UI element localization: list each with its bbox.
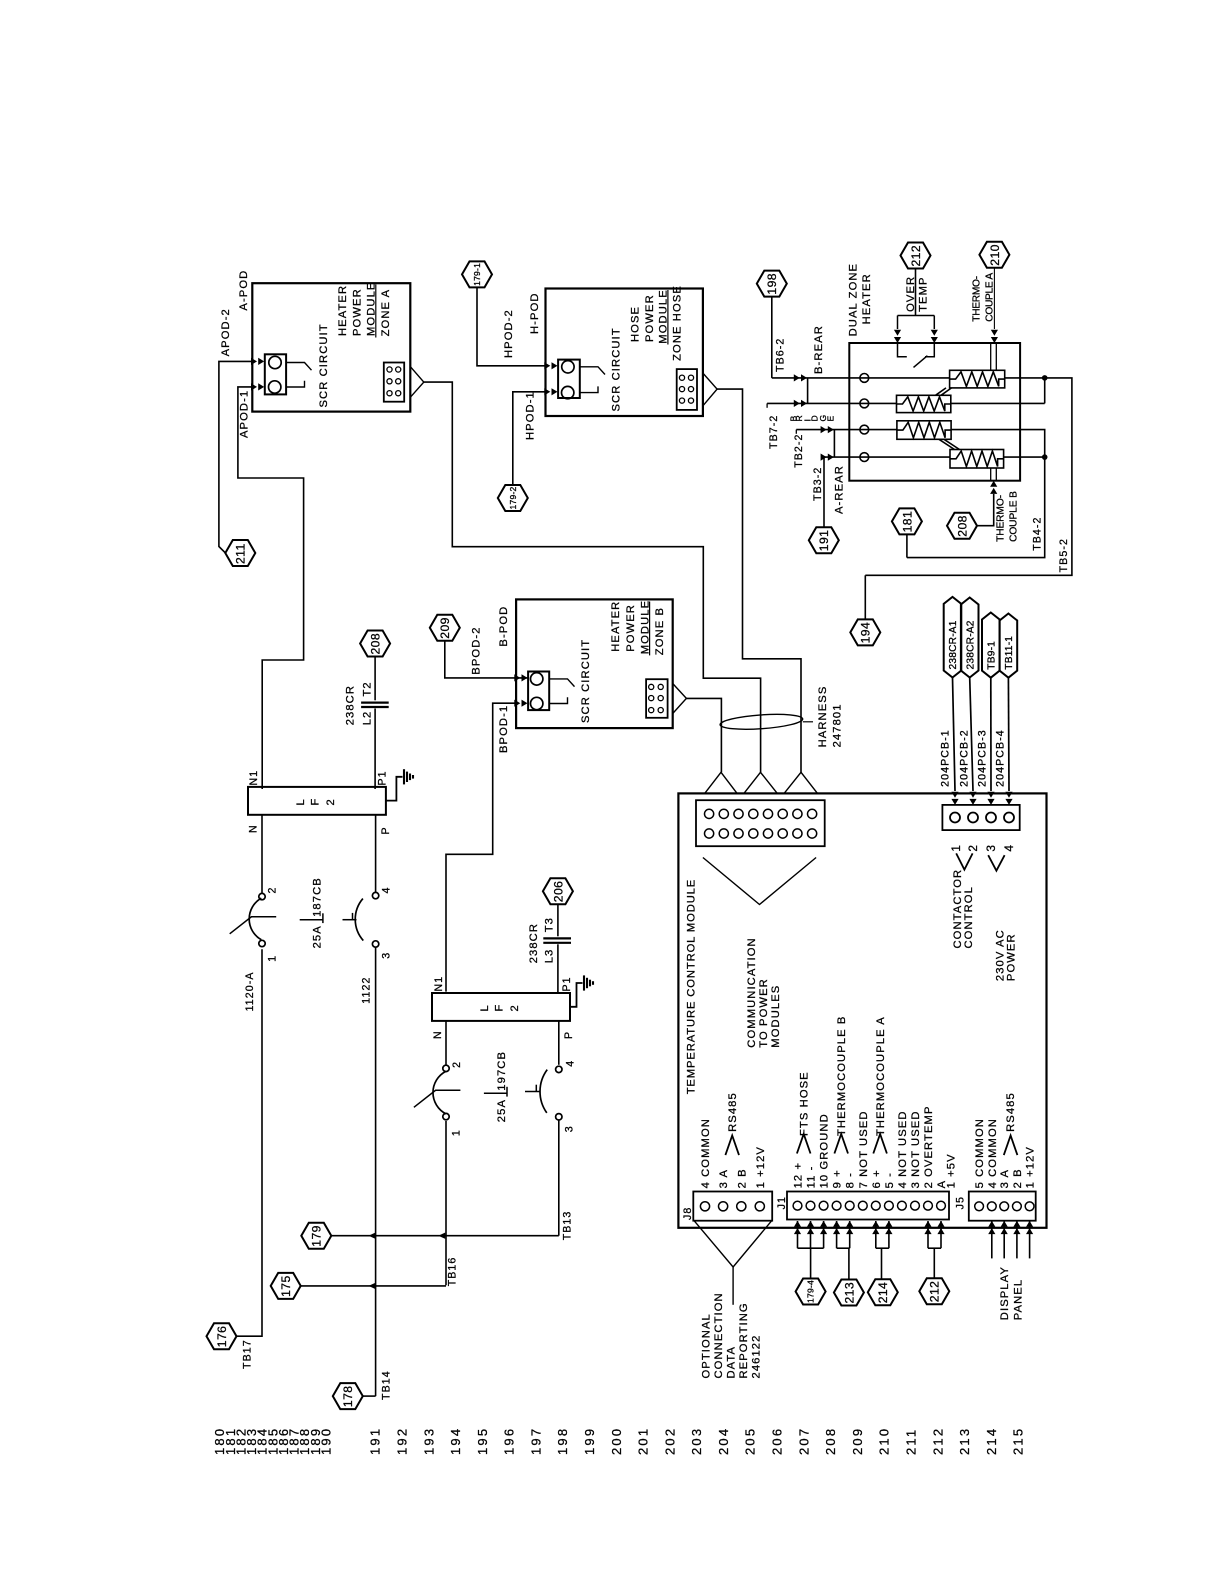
heater row wires (772, 377, 950, 379)
svg-text:1122: 1122 (360, 977, 372, 1004)
svg-text:175: 175 (279, 1275, 293, 1297)
wire H-POD to harness chain (717, 389, 801, 772)
svg-text:P1: P1 (376, 770, 388, 785)
svg-text:MODULES: MODULES (770, 985, 782, 1048)
svg-text:12 +: 12 + (793, 1162, 805, 1189)
svg-text:SCR CIRCUIT: SCR CIRCUIT (611, 327, 623, 411)
svg-text:N1: N1 (248, 770, 260, 786)
J8 fanout V (694, 1221, 771, 1267)
link R3-R4 (939, 439, 960, 449)
svg-text:179: 179 (310, 1225, 324, 1247)
svg-text:ZONE HOSE: ZONE HOSE (672, 285, 684, 361)
svg-text:204: 204 (716, 1427, 731, 1455)
temperature control module box (678, 793, 1046, 1227)
link R1-R2 (936, 388, 952, 395)
connector J5 (969, 1192, 1036, 1221)
svg-text:4 NOT USED: 4 NOT USED (897, 1110, 909, 1188)
svg-text:178: 178 (341, 1386, 355, 1408)
svg-text:204PCB-1: 204PCB-1 (940, 729, 952, 787)
heater element R1 (950, 370, 1005, 388)
line filter LF2 #2 (432, 993, 570, 1021)
svg-text:A-POD: A-POD (238, 270, 250, 311)
svg-text:238CR-A1: 238CR-A1 (948, 620, 959, 669)
svg-text:TB17: TB17 (241, 1339, 253, 1369)
svg-text:4 COMMON: 4 COMMON (987, 1118, 999, 1188)
node 178 TB14 (333, 1383, 363, 1409)
harness entry tents (705, 772, 737, 793)
svg-text:DUAL ZONE: DUAL ZONE (847, 263, 859, 337)
svg-text:TB6-2: TB6-2 (774, 338, 786, 372)
hose power module H-POD (zone hose) (546, 289, 703, 417)
node 212 overtemp (901, 243, 931, 269)
svg-text:196: 196 (502, 1427, 517, 1455)
svg-text:1 +12V: 1 +12V (1025, 1146, 1037, 1188)
node 212 display (919, 1278, 949, 1304)
node 194 (850, 619, 880, 645)
J5 wires to display panel (988, 1221, 995, 1234)
node 179-1 (462, 261, 492, 287)
node 179-2 (498, 485, 528, 511)
svg-text:TB14: TB14 (381, 1370, 393, 1400)
svg-text:L3: L3 (543, 949, 555, 964)
svg-text:4 COMMON: 4 COMMON (700, 1118, 712, 1188)
svg-text:OVER: OVER (905, 276, 917, 312)
svg-text:211: 211 (234, 543, 248, 564)
svg-text:BPOD-2: BPOD-2 (470, 626, 482, 674)
svg-text:COMMUNICATION: COMMUNICATION (746, 937, 758, 1047)
svg-text:ZONE B: ZONE B (654, 607, 666, 655)
svg-text:190: 190 (319, 1427, 334, 1455)
SCR circuit H-POD (558, 360, 580, 398)
node 208 thermocouple B (947, 513, 977, 539)
svg-text:BPOD-1: BPOD-1 (498, 705, 510, 753)
svg-text:191: 191 (817, 530, 831, 552)
svg-text:3: 3 (984, 844, 998, 852)
svg-text:197CB: 197CB (496, 1051, 508, 1091)
thermocouple A leads (991, 343, 997, 370)
svg-text:APOD-2: APOD-2 (220, 308, 232, 356)
svg-text:3 A: 3 A (999, 1169, 1011, 1188)
svg-text:213: 213 (957, 1427, 972, 1455)
wire CB2 pin1 down (445, 1121, 447, 1285)
flags 238CR-A1 etc (944, 597, 962, 678)
node 176 TB17 (207, 1323, 237, 1349)
svg-text:HPOD-2: HPOD-2 (503, 309, 515, 358)
svg-text:1: 1 (266, 955, 278, 962)
svg-text:4: 4 (380, 887, 392, 894)
svg-text:212: 212 (930, 1427, 945, 1455)
node 198 (757, 271, 787, 297)
svg-text:204PCB-4: 204PCB-4 (995, 729, 1007, 787)
svg-text:POWER: POWER (1006, 933, 1018, 981)
svg-text:E: E (825, 415, 835, 422)
svg-text:THERMOCOUPLE B: THERMOCOUPLE B (836, 1016, 848, 1136)
node 191 (809, 527, 839, 553)
svg-text:6 +: 6 + (871, 1169, 883, 1188)
svg-text:THERMO-: THERMO- (971, 276, 982, 321)
svg-text:191: 191 (368, 1427, 383, 1455)
svg-text:179-1: 179-1 (472, 263, 482, 286)
SCR circuit B-POD (528, 672, 549, 711)
svg-text:3 NOT USED: 3 NOT USED (910, 1110, 922, 1188)
svg-text:L2: L2 (361, 711, 373, 726)
svg-text:208: 208 (955, 515, 969, 537)
heater element R3 (897, 421, 951, 440)
node 211 (225, 540, 255, 566)
svg-text:HEATER: HEATER (861, 273, 873, 324)
svg-text:5 -: 5 - (884, 1172, 896, 1188)
svg-text:T2: T2 (361, 681, 373, 696)
svg-text:1: 1 (450, 1129, 462, 1136)
svg-text:213: 213 (842, 1282, 856, 1304)
svg-text:187CB: 187CB (312, 877, 324, 917)
heater element R2 (897, 395, 951, 412)
svg-text:THERMOCOUPLE A: THERMOCOUPLE A (875, 1016, 887, 1136)
harness 247801 cable ellipse (720, 712, 804, 732)
svg-text:4: 4 (565, 1060, 577, 1067)
svg-text:DATA: DATA (725, 1346, 737, 1379)
svg-text:H-POD: H-POD (529, 292, 541, 334)
heater power module A-POD (zone A) (252, 283, 410, 411)
svg-text:9 +: 9 + (832, 1169, 844, 1188)
SCR circuit A-POD (265, 354, 286, 394)
svg-text:A-REAR: A-REAR (834, 465, 846, 514)
svg-text:238CR: 238CR (528, 923, 540, 963)
svg-text:DISPLAY: DISPLAY (999, 1266, 1011, 1320)
wire CB1 pin3 down (375, 948, 377, 1397)
svg-text:TB7-2: TB7-2 (768, 415, 780, 449)
svg-text:TB5-2: TB5-2 (1058, 538, 1070, 572)
svg-text:209: 209 (438, 617, 452, 639)
wire 179 bus (331, 1235, 559, 1237)
svg-text:N: N (432, 1030, 444, 1039)
node 175 (271, 1273, 301, 1299)
dual zone heater box (849, 343, 1020, 481)
node 214 (868, 1279, 898, 1305)
node 206 (543, 878, 573, 904)
wire CB1 pin1 to TB17 (236, 949, 262, 1336)
svg-text:5 COMMON: 5 COMMON (974, 1118, 986, 1188)
svg-text:CONNECTION: CONNECTION (713, 1292, 725, 1378)
svg-text:4: 4 (1002, 844, 1016, 852)
wire B-POD to harness (686, 698, 721, 772)
svg-text:TB13: TB13 (561, 1211, 573, 1241)
svg-text:TO POWER: TO POWER (758, 978, 770, 1048)
svg-text:COUPLE B: COUPLE B (1009, 491, 1020, 542)
svg-text:P: P (380, 826, 392, 834)
wire 175 bus TB16 (301, 1285, 446, 1287)
svg-text:212: 212 (928, 1281, 942, 1303)
communication connector 2x8 (696, 800, 825, 846)
svg-text:194: 194 (448, 1427, 463, 1455)
svg-text:210: 210 (877, 1427, 892, 1455)
svg-text:200: 200 (609, 1427, 624, 1455)
svg-text:2 B: 2 B (1012, 1168, 1024, 1188)
svg-text:J8: J8 (682, 1207, 694, 1220)
svg-text:APOD-1: APOD-1 (239, 390, 251, 438)
svg-text:J5: J5 (954, 1196, 966, 1209)
svg-text:203: 203 (689, 1427, 704, 1455)
connector B-POD output (646, 679, 668, 718)
node 208 contact 238CR (360, 631, 390, 657)
svg-text:238CR: 238CR (344, 685, 356, 725)
svg-text:L: L (295, 798, 307, 805)
svg-text:T3: T3 (543, 917, 555, 932)
svg-text:193: 193 (421, 1427, 436, 1455)
svg-text:L: L (479, 1004, 491, 1011)
svg-text:198: 198 (555, 1427, 570, 1455)
svg-text:POWER: POWER (351, 288, 363, 336)
ground LF2 #1 (386, 777, 403, 801)
relay contact 238CR L2/T2 (361, 701, 389, 703)
node 209 (430, 615, 460, 641)
svg-text:HARNESS: HARNESS (817, 686, 829, 748)
svg-text:SCR CIRCUIT: SCR CIRCUIT (580, 639, 592, 723)
svg-text:N: N (247, 824, 259, 833)
svg-text:3: 3 (563, 1125, 575, 1132)
svg-text:8 -: 8 - (845, 1172, 857, 1188)
circuit breaker 187CB (261, 815, 263, 894)
ground LF2 #2 (570, 983, 583, 1007)
relay contact 238CR L3/T3 (543, 937, 571, 939)
node 179-4 (796, 1279, 826, 1305)
svg-text:TB3-2: TB3-2 (812, 467, 824, 501)
svg-text:OPTIONAL: OPTIONAL (700, 1313, 712, 1378)
svg-text:204PCB-2: 204PCB-2 (959, 729, 971, 787)
svg-text:TB4-2: TB4-2 (1032, 516, 1044, 550)
svg-text:P1: P1 (561, 976, 573, 991)
circuit breaker 197CB (445, 1021, 447, 1066)
svg-text:POWER: POWER (625, 604, 637, 652)
svg-text:RS485: RS485 (727, 1092, 739, 1132)
svg-text:214: 214 (984, 1427, 999, 1455)
svg-text:192: 192 (395, 1427, 410, 1455)
heater element R4 (950, 450, 1004, 469)
svg-text:246122: 246122 (750, 1335, 762, 1379)
svg-text:TEMPERATURE CONTROL MODULE: TEMPERATURE CONTROL MODULE (686, 879, 698, 1094)
svg-text:1 +12V: 1 +12V (755, 1146, 767, 1188)
svg-text:TEMP: TEMP (918, 276, 930, 311)
svg-text:206: 206 (770, 1427, 785, 1455)
svg-text:199: 199 (582, 1427, 597, 1455)
svg-text:215: 215 (1011, 1427, 1026, 1455)
svg-text:2 OVERTEMP: 2 OVERTEMP (923, 1105, 935, 1188)
wire A-POD to harness chain (424, 382, 761, 772)
svg-text:REPORTING: REPORTING (738, 1302, 750, 1378)
svg-text:210: 210 (988, 244, 1002, 266)
svg-text:ZONE A: ZONE A (380, 289, 392, 337)
svg-text:N1: N1 (433, 976, 445, 992)
svg-text:CONTROL: CONTROL (963, 886, 975, 948)
svg-text:247801: 247801 (831, 703, 843, 747)
svg-text:J1: J1 (776, 1196, 788, 1209)
connector H-POD output (677, 369, 697, 410)
svg-text:TB16: TB16 (446, 1257, 458, 1287)
svg-text:208: 208 (823, 1427, 838, 1455)
svg-text:204PCB-3: 204PCB-3 (977, 729, 989, 787)
svg-text:208: 208 (369, 633, 383, 655)
connector J8 (693, 1192, 772, 1221)
svg-text:TB2-2: TB2-2 (793, 433, 805, 467)
svg-text:P: P (563, 1031, 575, 1039)
svg-text:SCR CIRCUIT: SCR CIRCUIT (318, 323, 330, 407)
svg-text:2: 2 (325, 798, 337, 805)
svg-text:1: 1 (949, 844, 963, 852)
svg-text:209: 209 (850, 1427, 865, 1455)
svg-text:10 GROUND: 10 GROUND (819, 1113, 831, 1188)
heater power module B-POD (zone B) (516, 599, 673, 728)
svg-text:3: 3 (380, 952, 392, 959)
svg-text:2: 2 (451, 1061, 463, 1068)
svg-text:25A: 25A (312, 925, 324, 948)
svg-text:1 +5V: 1 +5V (945, 1153, 957, 1188)
svg-text:PANEL: PANEL (1012, 1279, 1024, 1320)
svg-text:205: 205 (743, 1427, 758, 1455)
svg-text:HEATER: HEATER (337, 285, 349, 336)
svg-text:TB9-1: TB9-1 (987, 641, 998, 670)
svg-text:206: 206 (551, 881, 565, 903)
svg-text:212: 212 (909, 245, 923, 267)
svg-text:238CR-A2: 238CR-A2 (965, 620, 976, 669)
svg-text:197: 197 (528, 1427, 543, 1455)
J1 wires to nodes (794, 1221, 801, 1234)
connector J1 (787, 1192, 949, 1220)
node 210 thermocouple A (979, 242, 1009, 268)
svg-text:TB11-1: TB11-1 (1004, 636, 1015, 670)
svg-text:B-REAR: B-REAR (813, 325, 825, 374)
svg-text:201: 201 (636, 1427, 651, 1455)
svg-text:F: F (494, 1004, 506, 1012)
svg-text:2: 2 (509, 1004, 521, 1011)
svg-text:HOSE: HOSE (630, 306, 642, 342)
node 213 (834, 1280, 864, 1306)
svg-text:7 NOT USED: 7 NOT USED (858, 1110, 870, 1188)
heater terminals (860, 374, 869, 383)
svg-text:HEATER: HEATER (610, 601, 622, 652)
svg-text:179-4: 179-4 (806, 1280, 816, 1303)
svg-text:POWER: POWER (644, 294, 656, 342)
wires flags to connector (953, 678, 956, 792)
svg-text:179-2: 179-2 (508, 486, 518, 509)
svg-text:RS485: RS485 (1005, 1092, 1017, 1132)
svg-text:181: 181 (900, 511, 914, 533)
fanout V (703, 858, 816, 905)
svg-text:211: 211 (904, 1428, 919, 1455)
node 179 (301, 1223, 331, 1249)
contactor/power connector 204PCB (942, 805, 1019, 830)
svg-text:198: 198 (765, 273, 779, 295)
svg-text:25A: 25A (496, 1099, 508, 1122)
thermocouple B leads (991, 468, 997, 481)
svg-text:F: F (310, 798, 322, 806)
wire CB2 pin3 down TB13 (558, 1120, 560, 1236)
svg-text:214: 214 (876, 1282, 890, 1304)
svg-text:1120-A: 1120-A (244, 971, 256, 1011)
svg-text:202: 202 (662, 1427, 677, 1455)
svg-text:11 -: 11 - (806, 1166, 818, 1189)
svg-text:176: 176 (215, 1326, 229, 1348)
line filter LF2 #1 (248, 787, 386, 815)
svg-text:B-POD: B-POD (498, 606, 510, 647)
heater right side ties (865, 378, 1072, 575)
svg-text:2: 2 (966, 844, 980, 852)
svg-text:HPOD-1: HPOD-1 (525, 391, 537, 440)
svg-text:207: 207 (796, 1427, 811, 1455)
svg-text:3 A: 3 A (718, 1169, 730, 1188)
svg-text:FTS HOSE: FTS HOSE (798, 1071, 810, 1136)
svg-text:THERMO-: THERMO- (995, 495, 1006, 542)
node 181 (892, 508, 922, 534)
svg-text:2 B: 2 B (736, 1168, 748, 1188)
svg-text:195: 195 (475, 1427, 490, 1455)
svg-text:2: 2 (266, 887, 278, 894)
svg-text:194: 194 (859, 622, 873, 644)
connector A-POD output (384, 363, 404, 402)
